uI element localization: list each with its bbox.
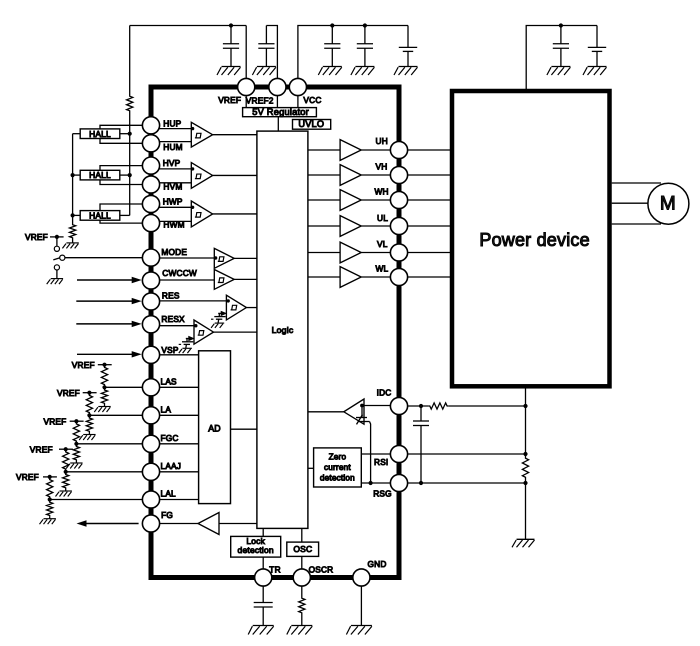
svg-text:Power device: Power device	[479, 230, 589, 250]
svg-text:GND: GND	[368, 559, 387, 569]
svg-text:RSI: RSI	[374, 457, 388, 467]
svg-text:VL: VL	[377, 239, 388, 249]
svg-text:VREF: VREF	[57, 388, 80, 398]
svg-text:HWM: HWM	[163, 219, 184, 229]
svg-text:HVM: HVM	[163, 182, 182, 192]
svg-text:detection: detection	[320, 474, 355, 483]
svg-text:WL: WL	[376, 264, 389, 274]
svg-text:IDC: IDC	[377, 387, 392, 397]
svg-text:HUM: HUM	[163, 142, 183, 152]
svg-text:HALL: HALL	[89, 170, 111, 180]
svg-text:UVLO: UVLO	[298, 119, 324, 129]
svg-text:FG: FG	[161, 510, 173, 520]
svg-text:Logic: Logic	[272, 325, 294, 335]
svg-text:RES: RES	[162, 291, 180, 301]
svg-text:M: M	[660, 194, 676, 215]
svg-text:LAAJ: LAAJ	[161, 461, 182, 471]
svg-text:VH: VH	[376, 162, 388, 172]
svg-text:RSG: RSG	[373, 488, 392, 498]
svg-text:VSP: VSP	[161, 345, 178, 355]
svg-text:OSC: OSC	[293, 544, 312, 554]
svg-text:VREF2: VREF2	[246, 96, 274, 106]
svg-text:OSCR: OSCR	[309, 564, 334, 574]
svg-text:UH: UH	[376, 136, 388, 146]
svg-text:VREF: VREF	[16, 472, 39, 482]
svg-text:VREF: VREF	[72, 360, 95, 370]
svg-text:VREF: VREF	[30, 444, 53, 454]
svg-text:VREF: VREF	[44, 416, 67, 426]
svg-text:HUP: HUP	[163, 118, 181, 128]
svg-text:VREF: VREF	[25, 232, 48, 242]
svg-text:LAL: LAL	[161, 489, 177, 499]
svg-text:Zero: Zero	[329, 452, 347, 461]
svg-text:HWP: HWP	[163, 197, 183, 207]
svg-text:CWCCW: CWCCW	[162, 268, 197, 278]
svg-text:HALL: HALL	[89, 211, 111, 221]
svg-text:VCC: VCC	[303, 95, 321, 105]
svg-text:5V Regulator: 5V Regulator	[252, 107, 309, 117]
svg-text:RESX: RESX	[161, 314, 185, 324]
svg-text:AD: AD	[208, 423, 221, 433]
svg-text:HVP: HVP	[163, 158, 181, 168]
svg-text:UL: UL	[377, 213, 388, 223]
svg-text:detection: detection	[238, 545, 274, 555]
svg-text:MODE: MODE	[161, 247, 187, 257]
svg-text:HALL: HALL	[89, 129, 111, 139]
svg-text:TR: TR	[269, 564, 280, 574]
svg-text:LAS: LAS	[161, 376, 178, 386]
svg-text:WH: WH	[375, 187, 389, 197]
svg-text:VREF: VREF	[218, 95, 241, 105]
svg-text:current: current	[324, 463, 351, 472]
svg-text:FGC: FGC	[161, 433, 179, 443]
svg-text:LA: LA	[161, 404, 172, 414]
